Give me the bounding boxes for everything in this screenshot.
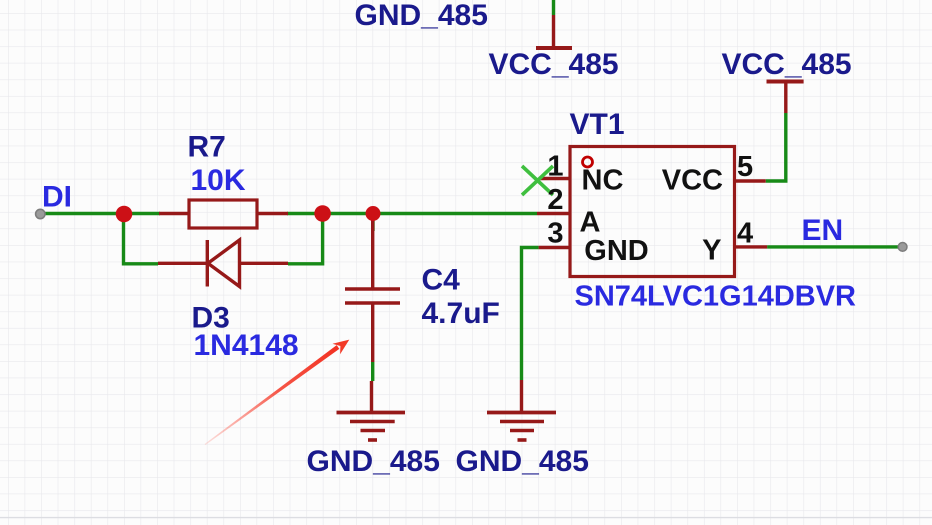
svg-text:4: 4 [737,218,753,250]
svg-text:VCC: VCC [662,165,723,197]
svg-text:DI: DI [42,181,72,214]
ground GND_485 under C4 [337,381,406,440]
svg-text:GND_485: GND_485 [307,445,440,478]
wire: pin4 to EN port [767,245,898,248]
inverter IC VT1 (SN74LVC1G14DBVR) body [570,147,735,277]
ground GND_485 under pin 3 [487,380,556,440]
svg-text:C4: C4 [422,264,461,297]
svg-text:1N4148: 1N4148 [194,329,299,362]
power port VCC_485 top right [767,82,804,114]
svg-text:VCC_485: VCC_485 [489,48,619,81]
wire: resistor right lead to pin 2 [287,212,537,215]
svg-text:A: A [580,207,601,239]
annotation red arrow [205,340,350,445]
no-connect X on pin 1 [522,166,553,195]
wire: DI port to resistor left lead [45,212,160,215]
wire: junction to C4 top [371,214,374,232]
port EN endpoint dot [898,243,907,252]
junction node A [116,206,133,223]
pin 4 stub [735,245,768,248]
svg-text:EN: EN [802,214,844,247]
pin 2 stub [537,212,570,215]
wire: pin5 to VCC [766,113,786,181]
svg-text:3: 3 [547,218,563,250]
svg-text:R7: R7 [188,131,226,164]
svg-text:GND: GND [584,235,648,267]
resistor R7 [159,200,288,228]
svg-text:GND_485: GND_485 [355,0,488,32]
pin 1 stub [540,177,570,180]
wire: top VCC stub [552,0,555,15]
wire: right loop from diode up [288,214,323,264]
pin 1 dot marker [583,157,593,167]
pin 5 stub [735,179,766,182]
diode D3 [158,240,288,287]
svg-text:10K: 10K [191,164,246,197]
svg-text:VCC_485: VCC_485 [722,48,852,81]
svg-text:4.7uF: 4.7uF [422,297,500,330]
svg-text:VT1: VT1 [570,108,625,141]
svg-text:5: 5 [737,151,753,183]
wire: C4 bottom to ground [371,362,374,381]
svg-text:2: 2 [547,184,563,216]
junction node B [314,205,331,222]
capacitor C4 [345,214,400,363]
svg-text:1: 1 [547,150,563,182]
svg-text:GND_485: GND_485 [456,445,589,478]
svg-text:SN74LVC1G14DBVR: SN74LVC1G14DBVR [575,281,857,313]
svg-text:Y: Y [702,235,721,267]
junction node C [366,206,381,221]
port DI endpoint dot [36,209,45,218]
svg-text:NC: NC [582,165,624,197]
wire: left loop down to diode [124,214,159,264]
power port VCC_485 top center [536,15,572,48]
pin 3 stub [539,246,570,249]
wire: pin3 to ground [522,248,539,381]
